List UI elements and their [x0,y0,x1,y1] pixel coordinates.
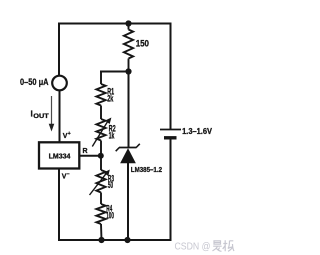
node junction bottom chain [98,237,104,243]
node junction top of 150 [125,20,131,26]
wire node to resistor chain top [101,71,129,73]
resistor R2 (variable) [96,119,105,170]
resistor R3 (variable) [96,170,105,204]
wire top rail [59,23,171,25]
svg-text:0–50 μA: 0–50 μA [20,77,49,88]
svg-text:R: R [83,148,88,155]
svg-text:100: 100 [106,210,114,220]
svg-text:150: 150 [136,39,149,50]
wire right rail upper [170,24,172,129]
svg-text:–: – [67,172,70,178]
arrow of R2 [92,118,111,147]
svg-text:LM385–1.2: LM385–1.2 [131,165,162,174]
op-amp U1 LM334 box [39,142,79,168]
wire LM334 V- to bottom rail [58,169,60,241]
watermark glyph yi [213,241,222,252]
battery BT1 [160,130,181,138]
watermark glyph ban [223,240,234,251]
svg-text:OUT: OUT [33,113,49,120]
wire left rail upper [58,24,60,77]
wire LM334 R pin to chain [79,155,101,157]
svg-text:CSDN @: CSDN @ [175,241,211,252]
meter M1 0-50 uA [52,76,67,91]
wire meter to LM334 V+ [59,91,61,143]
node junction R pin [98,153,104,159]
resistor R4 [96,204,105,240]
svg-text:1k: 1k [109,131,115,141]
wire right rail lower [170,140,172,241]
diode D1 LM385-1.2 (zener) [116,144,140,163]
wire diode branch lower [127,163,129,240]
watermark CSDN [175,241,211,252]
arrow IOUT [49,96,55,132]
wire diode branch upper [128,72,130,148]
node junction bottom diode [124,237,130,243]
arrow of R3 [90,170,110,196]
wire bottom rail [59,239,171,241]
svg-text:2k: 2k [107,94,113,104]
resistor 150 [124,24,133,72]
svg-text:LM334: LM334 [49,151,72,160]
svg-text:+: + [68,131,71,137]
resistor R1 [96,72,105,120]
node junction below 150 [125,68,131,74]
svg-text:50: 50 [108,180,113,190]
svg-text:1.3–1.6V: 1.3–1.6V [182,127,213,136]
